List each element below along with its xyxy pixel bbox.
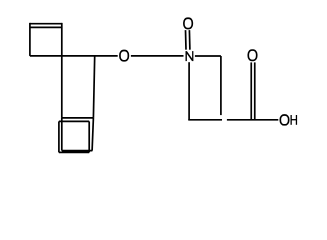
cyclobutene ring left edge [29,23,31,56]
lower cyclobutane ring Q top edge [62,117,94,119]
main horizontal bond row: cyclobutene bottom edge + chain to ether O [30,55,118,57]
azetidine ring bottom edge [188,119,222,121]
offset cyclobutane ring P right edge [88,121,90,152]
N-oxide N=O double bond left line [185,30,188,50]
cyclobutene ring top edge (C=C outer line) [30,23,62,25]
azetidine ring top edge (N to top-right corner) [195,55,221,57]
atom label N (azetidine nitrogen) [186,51,193,61]
atom label O (N-oxide oxygen) [184,18,192,28]
lower cyclobutane ring Q right edge [92,118,93,151]
lower cyclobutane ring Q bottom edge [62,150,93,152]
offset cyclobutane ring P top edge [59,120,89,122]
bond ether O to ring N [131,55,184,57]
vertical bond from chain carbon down to lower ring top-right corner [93,56,94,118]
azetidine ring right edge [220,56,222,115]
azetidine ring left edge (below N) [188,62,190,120]
atom label O (carbonyl oxygen) [248,50,256,60]
cyclobutene C=C double bond inner line [30,26,62,28]
atom label O of hydroxyl OH [280,115,288,125]
lower cyclobutane ring Q left edge [61,118,63,151]
carboxyl C=O double bond right line [254,62,256,119]
atom label H of hydroxyl OH [291,115,296,125]
N-oxide N=O double bond right line [188,30,191,50]
chain bond from ring corner through carboxyl carbon toward hydroxyl [227,119,278,121]
cyclobutene right edge continuing down as spiro vertical bond [61,23,63,118]
carboxyl C=O double bond left line [250,62,252,119]
offset cyclobutane ring P bottom edge [59,151,89,153]
offset cyclobutane ring P left edge [58,121,60,152]
atom label O (ether oxygen) [120,51,128,61]
